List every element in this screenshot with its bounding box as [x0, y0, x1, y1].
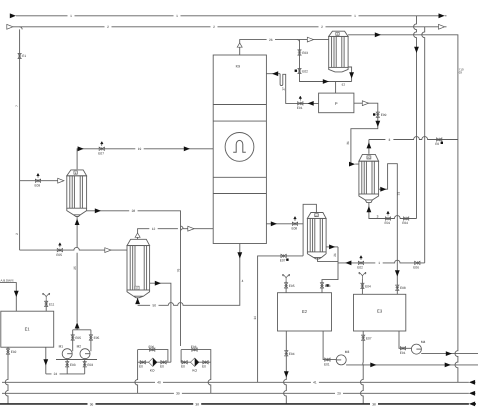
svg-text:E2: E2: [302, 309, 308, 314]
arrow left bus3 end: [469, 402, 475, 407]
arrow B bottom outlet: [95, 208, 101, 213]
open arrow P discharge: [362, 101, 368, 106]
svg-text:17: 17: [282, 87, 286, 91]
valve KO-left main outlet: [161, 361, 166, 364]
valve KO-right bypass: [192, 348, 197, 351]
arrow down P drop valve: [375, 121, 380, 127]
vessel IC: [127, 239, 150, 297]
valve E09 vessel B inlet: [35, 173, 40, 182]
svg-text:E0: E0: [435, 142, 439, 146]
vent triangle IC: [135, 233, 140, 237]
wire K9 outlet to vessel10 riser: [266, 223, 303, 225]
wire X2 bottom line to line A: [369, 203, 417, 219]
valve E1 on left feed vertical: [18, 53, 21, 58]
valve E03 on x299 drop upper: [298, 50, 301, 55]
svg-text:E1: E1: [22, 54, 26, 58]
svg-text:E02: E02: [357, 266, 363, 270]
valve E0 M4 suction: [400, 347, 405, 350]
vessel A: [329, 31, 348, 72]
svg-text:3: 3: [389, 138, 391, 142]
svg-text:E05: E05: [56, 253, 62, 257]
svg-text:M1: M1: [59, 344, 64, 348]
valve KO-right main outlet: [203, 361, 208, 364]
wire line from B-line to vessel10 merge y263: [338, 260, 425, 263]
wire KO-right main line: [181, 350, 211, 363]
wire X2 side outlet over-jump down to E3 line 31: [379, 164, 398, 295]
KO unit left diamond: [149, 358, 157, 366]
valve E02 on x299 drop lower: [295, 68, 302, 73]
svg-text:21: 21: [333, 253, 337, 257]
wire pump baseline: [56, 359, 97, 361]
valve E0 on E2 left drain: [285, 351, 288, 356]
wire pump drains to manifold 24: [46, 359, 85, 374]
svg-text:12: 12: [152, 227, 156, 231]
svg-text:E09: E09: [35, 183, 41, 187]
svg-text:X2: X2: [367, 157, 371, 160]
arrow down E2 left drain: [284, 371, 289, 377]
open arrow vessel B inlet: [58, 178, 64, 183]
pump M2: [80, 349, 90, 359]
open arrow line2 end: [439, 24, 445, 29]
arrow B top outlet 1: [78, 146, 84, 151]
pump M4: [411, 344, 421, 354]
valve E08 on line31 inlet E3: [396, 285, 399, 290]
svg-text:M4: M4: [421, 340, 426, 344]
svg-text:E11: E11: [49, 303, 55, 307]
pump M3: [336, 355, 346, 365]
wire bus1 y382: [2, 381, 476, 383]
svg-text:2: 2: [107, 25, 109, 29]
wire KO-left main line: [138, 350, 171, 363]
wire vessel10 cone outlet: [318, 247, 339, 293]
svg-text:28: 28: [132, 209, 136, 213]
svg-text:2: 2: [213, 25, 215, 29]
wire K9 vent branch down x299.5: [297, 40, 352, 94]
arrow left on y263 line: [345, 261, 351, 266]
valve E0 on line3 right: [437, 138, 444, 144]
svg-text:A: A: [337, 33, 339, 36]
svg-text:39: 39: [176, 392, 180, 396]
goose vent E1: [43, 293, 50, 300]
open arrow line2 start: [7, 24, 13, 29]
svg-text:E05: E05: [94, 336, 100, 340]
svg-text:E06: E06: [413, 266, 419, 270]
arrow X2 side outlet: [380, 187, 386, 192]
wire bus2 y393: [2, 392, 476, 394]
arrow down E1 center drain: [43, 359, 48, 365]
valve E0 M3 suction: [325, 358, 330, 361]
svg-text:2: 2: [15, 233, 19, 235]
valve E09 on P discharge drop: [373, 112, 379, 117]
arrow K9 right outlet to vessel10: [271, 221, 277, 226]
valve E05 on E2 vent: [284, 283, 287, 288]
arrow up X2 top riser: [367, 142, 372, 148]
wire vessel10 inlet riser and top entry: [303, 204, 316, 256]
svg-text:26: 26: [269, 38, 273, 42]
wire IC feed line: [20, 247, 127, 250]
valve E08 on K9 to vessel10 line: [292, 217, 297, 226]
svg-text:E08: E08: [400, 286, 406, 290]
svg-text:E05: E05: [289, 284, 295, 288]
svg-text:10: 10: [315, 214, 318, 217]
svg-text:29: 29: [337, 392, 341, 396]
svg-text:7: 7: [15, 105, 19, 107]
valve E04 on E3 vent: [361, 283, 364, 288]
svg-text:03: 03: [459, 71, 463, 75]
svg-text:P: P: [335, 101, 338, 106]
wire line 1 top header: [16, 15, 447, 17]
vessel B: [67, 170, 87, 217]
svg-text:36: 36: [90, 403, 94, 407]
open arrow line26: [307, 37, 313, 42]
valve E03 pump M2 drain: [83, 362, 86, 367]
svg-text:41: 41: [313, 381, 317, 385]
wire E1 feed A.B.DW/S: [0, 283, 16, 312]
wire line from vessel A top to right then down (line C): [348, 35, 458, 383]
wire left feed vertical from line2: [20, 27, 23, 250]
arrow left into K9 right side: [272, 71, 278, 76]
svg-text:E01: E01: [297, 106, 303, 110]
svg-text:25: 25: [73, 266, 77, 270]
svg-text:E3: E3: [377, 308, 383, 313]
svg-text:E08: E08: [292, 227, 298, 231]
wire K9 right inlet from loop seal: [266, 74, 318, 104]
valve E07 on line 19: [99, 142, 104, 151]
svg-text:KO: KO: [192, 369, 197, 373]
arrow down line31: [395, 270, 400, 276]
box P: [319, 93, 354, 113]
svg-text:E02: E02: [302, 70, 308, 74]
arrow down K9 bottom drop: [237, 252, 242, 258]
svg-text:K9: K9: [236, 64, 240, 68]
arrow M3 discharge 2: [445, 363, 451, 368]
svg-text:E01: E01: [385, 221, 391, 225]
arrow B top outlet 2: [184, 146, 190, 151]
wire vessel B top outlet line 19 to K9: [77, 149, 213, 170]
wire E1 left drain to bus3: [5, 347, 8, 404]
arrow left on P suction: [308, 101, 314, 106]
reactor K9: [213, 55, 266, 244]
wire line 26 from K9 vent to vessel A: [240, 40, 329, 55]
valve E0 on P suction: [298, 96, 303, 105]
valve E06 on y263 line right: [415, 261, 420, 264]
svg-text:E03: E03: [325, 284, 331, 288]
wire KO-left bypass: [138, 350, 168, 363]
svg-text:E03: E03: [87, 363, 93, 367]
wire inlet to vessel B: [20, 180, 58, 182]
svg-text:E04: E04: [402, 221, 408, 225]
wire M4 discharge line: [421, 353, 478, 355]
wire E3 vent drop: [361, 279, 363, 294]
wire E1 vent drop: [45, 300, 47, 311]
svg-text:1: 1: [70, 14, 72, 18]
goose vent E2: [283, 274, 290, 281]
wire E2 left drain to bus3: [284, 331, 287, 404]
svg-text:E0: E0: [181, 365, 185, 369]
wire vertical line A from line1: [414, 16, 417, 219]
pump M1: [62, 349, 72, 359]
svg-text:50: 50: [153, 304, 157, 308]
svg-text:E02: E02: [11, 350, 17, 354]
svg-text:E09: E09: [381, 113, 387, 117]
arrow M3 discharge 1: [370, 363, 376, 368]
wire vessel10 drain to left: [258, 256, 304, 382]
svg-text:38: 38: [372, 403, 376, 407]
svg-text:38: 38: [195, 403, 199, 407]
valve E02 on y263 line left: [358, 256, 363, 265]
arrow down E1 feed: [14, 291, 19, 297]
svg-text:E1: E1: [25, 326, 31, 331]
svg-text:KO: KO: [150, 369, 155, 373]
svg-text:31: 31: [346, 141, 350, 145]
valve E07 E3 left drain: [362, 335, 365, 340]
svg-text:24: 24: [54, 372, 58, 376]
vessel X2: [359, 154, 379, 202]
svg-text:31: 31: [397, 192, 401, 196]
svg-text:IC: IC: [136, 287, 139, 290]
svg-text:E0: E0: [160, 365, 164, 369]
vent triangle K9: [237, 43, 242, 47]
arrow down on line A: [414, 47, 419, 53]
wire vessel A bottom outlet: [348, 67, 352, 82]
open arrow line12: [188, 226, 194, 231]
arrow up into B bottom: [75, 219, 80, 225]
svg-text:E07: E07: [98, 152, 104, 156]
box E2: [278, 293, 332, 331]
svg-text:E06: E06: [149, 345, 155, 349]
svg-text:76: 76: [176, 269, 180, 273]
valve E05 pump M1 suction: [71, 335, 74, 340]
open arrow IC feed: [105, 248, 111, 253]
arrow line1 start: [10, 13, 16, 18]
wire E3 left drain joining M3 line to bus3: [361, 331, 364, 404]
box E1: [1, 311, 54, 347]
svg-text:E0: E0: [202, 365, 206, 369]
svg-text:B: B: [75, 172, 77, 175]
svg-text:M3: M3: [345, 350, 350, 354]
valve E05 on IC feed: [57, 243, 62, 252]
wire E3 bottom drain to pump M4: [399, 331, 416, 349]
arrow left bus2 end: [469, 391, 475, 396]
valve E03 on E2 right inlet: [320, 283, 329, 288]
valve E02 on E1 left drain: [6, 349, 9, 354]
wire IC bottom line 50 to K9 drop: [138, 244, 240, 306]
arrow down vessel A outlet: [349, 72, 354, 78]
arrow up into X2 bottom: [367, 206, 372, 212]
svg-text:3: 3: [377, 215, 379, 219]
arrow vessel10 side outlet: [329, 245, 335, 250]
svg-text:40: 40: [157, 381, 161, 385]
svg-text:E06: E06: [191, 345, 197, 349]
svg-text:A.B.DW/S: A.B.DW/S: [1, 279, 14, 283]
wire vertical line B from line2: [422, 27, 425, 263]
arrow S7 line: [323, 79, 329, 84]
svg-text:E01: E01: [324, 362, 330, 366]
wire KO-right bypass: [181, 350, 211, 363]
svg-text:57: 57: [342, 83, 346, 87]
wire vessel B bottom outlet line 28: [87, 211, 181, 346]
vessel 10: [307, 213, 326, 259]
wire E2 right drain to pump M3: [323, 331, 342, 360]
svg-text:E07: E07: [366, 337, 372, 341]
arrow up into IC bottom: [135, 298, 140, 304]
svg-text:M2: M2: [77, 344, 82, 348]
valve KO-right main inlet: [182, 361, 187, 364]
arrow M4 discharge: [446, 351, 452, 356]
svg-text:1: 1: [354, 14, 356, 18]
svg-text:E0: E0: [139, 365, 143, 369]
svg-text:E04: E04: [289, 352, 295, 356]
valve E0 on X2 bottom line left: [385, 211, 390, 220]
wire line 12 from IC vent to K9: [138, 226, 214, 239]
wire KO-left left leg to bus2: [135, 362, 138, 393]
arrow line1 end: [439, 13, 445, 18]
svg-text:14: 14: [253, 316, 257, 320]
arrow up line25 to header: [75, 322, 80, 328]
goose vent E3: [359, 272, 366, 279]
wire E2 vent drop: [285, 281, 287, 293]
valve E04 on X2 bottom line right: [403, 217, 408, 220]
wire E1 center drain: [45, 347, 47, 374]
svg-text:E03: E03: [302, 51, 308, 55]
KO unit right diamond: [191, 358, 199, 366]
valve E05 pump M2 suction: [89, 335, 92, 340]
svg-text:E03: E03: [70, 363, 76, 367]
svg-text:1: 1: [378, 261, 380, 265]
svg-text:19: 19: [138, 147, 142, 151]
arrow left bus1 end: [469, 380, 475, 385]
arrow IC side outlet: [155, 281, 161, 286]
valve E07 on vessel10 drain: [281, 254, 289, 261]
white gaps under on-line labels: [52, 14, 394, 407]
arrow into X2 left: [349, 162, 355, 167]
wire M3 discharge line: [346, 364, 478, 366]
valve KO-left bypass: [150, 348, 155, 351]
svg-text:1: 1: [176, 14, 178, 18]
valve E1 on E1 vent: [45, 301, 48, 306]
wire X2 top line 3 to line C: [369, 137, 458, 154]
svg-text:E01: E01: [400, 351, 406, 355]
wire KO-right leg to bus2: [208, 362, 211, 393]
svg-text:E07: E07: [280, 259, 286, 263]
wire P right outlet down-around to X2: [351, 103, 378, 164]
arrow line4: [375, 32, 381, 37]
valve E03 pump M1 drain: [66, 362, 69, 367]
wire pump header split: [73, 326, 91, 351]
bus3 heavy bottom line: [0, 403, 476, 405]
svg-text:E05: E05: [75, 336, 81, 340]
svg-text:2: 2: [321, 25, 323, 29]
wire IC side outlet down to KO: [150, 283, 171, 362]
box E3: [354, 294, 406, 331]
wire line 2 second header: [13, 26, 447, 28]
svg-text:E04: E04: [365, 284, 371, 288]
wire vessel B bottom riser line 25: [76, 217, 78, 323]
wire vessel10 side outlet: [326, 246, 338, 248]
svg-text:4: 4: [242, 279, 244, 283]
valve KO-left main inlet: [140, 361, 145, 364]
